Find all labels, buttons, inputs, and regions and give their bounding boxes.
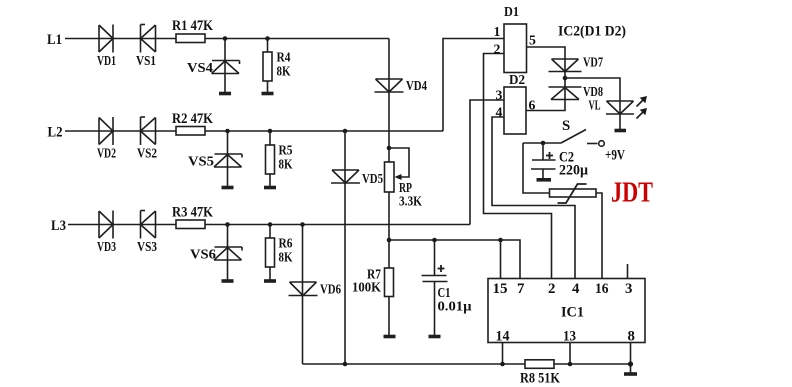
diode VD1 — [99, 25, 113, 53]
svg-text:L2: L2 — [48, 125, 63, 141]
capacitor C1 polarity + — [438, 265, 445, 272]
svg-text:VS5: VS5 — [188, 154, 214, 169]
svg-text:VD3: VD3 — [97, 239, 116, 254]
junction node rail at pin14 — [500, 362, 505, 367]
capacitor C2 bottom lead — [542, 169, 544, 179]
diode VD7 — [549, 59, 582, 72]
junction node rail at pin13 — [568, 362, 573, 367]
svg-text:14: 14 — [496, 329, 511, 345]
zener VS1 — [141, 25, 156, 53]
svg-text:3: 3 — [625, 281, 632, 297]
resistor R1 — [176, 34, 205, 43]
wire IC1 pin8 — [630, 343, 632, 373]
wire R4 column — [267, 39, 269, 93]
ground below R4 — [262, 92, 274, 96]
svg-text:8K: 8K — [277, 64, 291, 79]
resistor R4 — [263, 52, 272, 81]
svg-text:8: 8 — [628, 329, 635, 345]
RP wiper arrowhead — [395, 174, 402, 180]
ground below C2 — [537, 178, 552, 182]
resistor R8 — [525, 360, 554, 369]
svg-text:R5: R5 — [279, 143, 293, 158]
svg-text:+9V: +9V — [605, 148, 625, 164]
ground below VS4 — [219, 92, 231, 96]
diode VD3 — [99, 211, 113, 239]
svg-text:15: 15 — [493, 281, 508, 297]
svg-text:D1: D1 — [504, 4, 519, 19]
LED VL — [606, 101, 634, 114]
junction node on L2 at VS5 — [225, 129, 230, 134]
svg-text:16: 16 — [595, 281, 609, 297]
svg-text:R2 47K: R2 47K — [172, 111, 213, 127]
IC D1 — [504, 24, 527, 73]
wire IC1 pin13 — [569, 343, 571, 365]
junction node VD7-VD8 — [563, 76, 568, 81]
wire VD5 column — [344, 131, 346, 364]
diode VD4 — [375, 79, 404, 92]
capacitor C2 plates — [531, 160, 556, 169]
wire D1 pin2 to IC1 pin2 — [484, 54, 552, 280]
ground below pin8 — [624, 372, 637, 376]
ground below R5 — [264, 186, 276, 190]
zener VS3 — [141, 211, 156, 239]
svg-text:D2: D2 — [509, 72, 525, 87]
resistor R3 — [176, 220, 205, 229]
wire R5 column — [269, 131, 271, 186]
junction node RP wiper tap — [387, 146, 392, 151]
svg-text:S: S — [562, 118, 570, 134]
svg-text:L3: L3 — [51, 218, 66, 234]
wire L3 row — [68, 224, 470, 226]
svg-text:220µ: 220µ — [559, 163, 588, 179]
wire battery node down to thermistor — [523, 143, 550, 193]
junction node rail at C1 — [432, 238, 437, 243]
svg-text:VS1: VS1 — [136, 53, 156, 68]
switch S lever — [561, 130, 586, 144]
svg-text:3: 3 — [496, 88, 503, 103]
svg-text:VD6: VD6 — [320, 282, 341, 297]
wire L2 row — [65, 130, 443, 132]
svg-text:R3 47K: R3 47K — [172, 205, 213, 221]
junction node C2 top — [541, 141, 546, 146]
svg-text:0.01µ: 0.01µ — [438, 299, 472, 314]
svg-text:VD2: VD2 — [97, 146, 116, 161]
svg-text:2: 2 — [494, 42, 501, 57]
junction node rail at VD5 column — [343, 362, 348, 367]
svg-text:VS4: VS4 — [187, 60, 213, 75]
junction node on L1 at R4 — [265, 36, 270, 41]
capacitor C2 polarity + — [546, 152, 553, 159]
svg-text:5: 5 — [529, 33, 536, 48]
diode VD5 — [331, 170, 360, 183]
svg-text:4: 4 — [496, 105, 503, 120]
diode VD2 — [99, 117, 113, 145]
RP wiper arm — [389, 148, 409, 177]
svg-text:R8 51K: R8 51K — [520, 371, 560, 387]
junction node on L3 at VS6 — [225, 222, 230, 227]
svg-text:L1: L1 — [47, 32, 62, 48]
junction node on L3 at R6 — [268, 222, 273, 227]
IC D2 — [504, 87, 526, 134]
ground below VS5 — [222, 186, 234, 190]
wire D2 pin3 from L3 — [470, 100, 504, 225]
resistor R2 — [176, 127, 205, 136]
svg-text:13: 13 — [563, 329, 576, 345]
zener VS5 — [214, 154, 242, 167]
svg-text:VS6: VS6 — [190, 247, 216, 262]
junction node on L2 at R5 — [268, 129, 273, 134]
svg-text:8K: 8K — [279, 250, 293, 265]
svg-text:2: 2 — [548, 281, 555, 297]
ground below R6 — [264, 279, 276, 283]
wire R6 column — [269, 225, 271, 280]
ground below C1 — [429, 335, 441, 339]
svg-text:100K: 100K — [352, 280, 381, 295]
wire IC1 pin15 — [500, 240, 502, 279]
wire VS4 column — [224, 39, 226, 93]
wire IC1 pin14 — [502, 343, 504, 365]
svg-text:8K: 8K — [279, 157, 293, 172]
junction node on L1 at VS4 — [223, 36, 228, 41]
wire D1 pin1 from L2 — [443, 39, 504, 132]
wire VD6 column — [302, 225, 304, 365]
svg-text:VD5: VD5 — [362, 171, 383, 186]
capacitor C1 top lead — [434, 240, 436, 275]
potentiometer RP — [385, 162, 395, 192]
svg-text:VD1: VD1 — [97, 53, 116, 68]
svg-text:VS2: VS2 — [137, 146, 157, 161]
svg-text:IC1: IC1 — [561, 305, 584, 321]
switch contact wire — [587, 143, 598, 145]
thermistor JDT body — [550, 189, 597, 197]
wire VD4 / RP / R7 column — [388, 39, 390, 336]
junction node on L3 at VD6 column — [300, 222, 305, 227]
zener VS2 — [141, 117, 156, 145]
svg-text:VS3: VS3 — [137, 239, 157, 254]
IC1 box — [488, 279, 645, 343]
bottom rail wire — [303, 363, 631, 365]
wire D1 pin5 to VD7 column — [526, 47, 565, 111]
junction node rail at pin8 — [628, 361, 633, 366]
wire VS6 column — [227, 225, 229, 280]
resistor R7 — [385, 268, 394, 297]
resistor R6 — [266, 238, 275, 267]
resistor R5 — [266, 145, 275, 174]
svg-text:1: 1 — [494, 24, 501, 39]
ground below VS6 — [222, 279, 234, 283]
capacitor C2 top lead — [542, 143, 544, 160]
svg-text:R6: R6 — [279, 236, 293, 251]
svg-text:IC2(D1 D2): IC2(D1 D2) — [558, 24, 626, 40]
LED VL emission arrows — [637, 96, 648, 119]
thermistor JDT diagonal stroke — [558, 184, 587, 203]
svg-text:R1 47K: R1 47K — [172, 18, 213, 34]
IC1 pin 3 stub wire — [627, 264, 629, 279]
capacitor C1 plates — [422, 276, 448, 282]
zener VS6 — [214, 247, 242, 260]
svg-text:VD7: VD7 — [583, 55, 603, 70]
svg-text:4: 4 — [572, 281, 580, 297]
diode VD8 — [549, 87, 582, 100]
wire rail to IC1 pins 15 and 7 — [389, 240, 520, 279]
junction node rail at pin15 — [498, 238, 503, 243]
svg-text:3.3K: 3.3K — [399, 194, 422, 209]
ground below VL — [615, 129, 627, 133]
wire thermistor to IC1 pin16 — [596, 193, 602, 279]
wire D2 pin4 to IC1 pin4 — [492, 117, 575, 279]
switch contact circle — [599, 141, 605, 147]
junction node on L2 at VD5 column — [343, 129, 348, 134]
junction node rail at R7 top — [387, 238, 392, 243]
svg-text:VL: VL — [589, 98, 601, 113]
svg-text:VD4: VD4 — [406, 78, 427, 93]
wire battery node to switch — [523, 142, 561, 144]
wire junction to VL — [565, 78, 620, 130]
diode VD6 — [289, 282, 318, 296]
wire VS5 column — [227, 131, 229, 186]
zener VS4 — [212, 61, 240, 74]
svg-text:R4: R4 — [277, 50, 291, 65]
wire L1 row — [65, 38, 389, 40]
ground below R7 — [384, 335, 396, 339]
svg-text:7: 7 — [517, 281, 525, 297]
svg-text:JDT: JDT — [611, 177, 653, 209]
capacitor C1 bottom lead — [434, 282, 436, 336]
